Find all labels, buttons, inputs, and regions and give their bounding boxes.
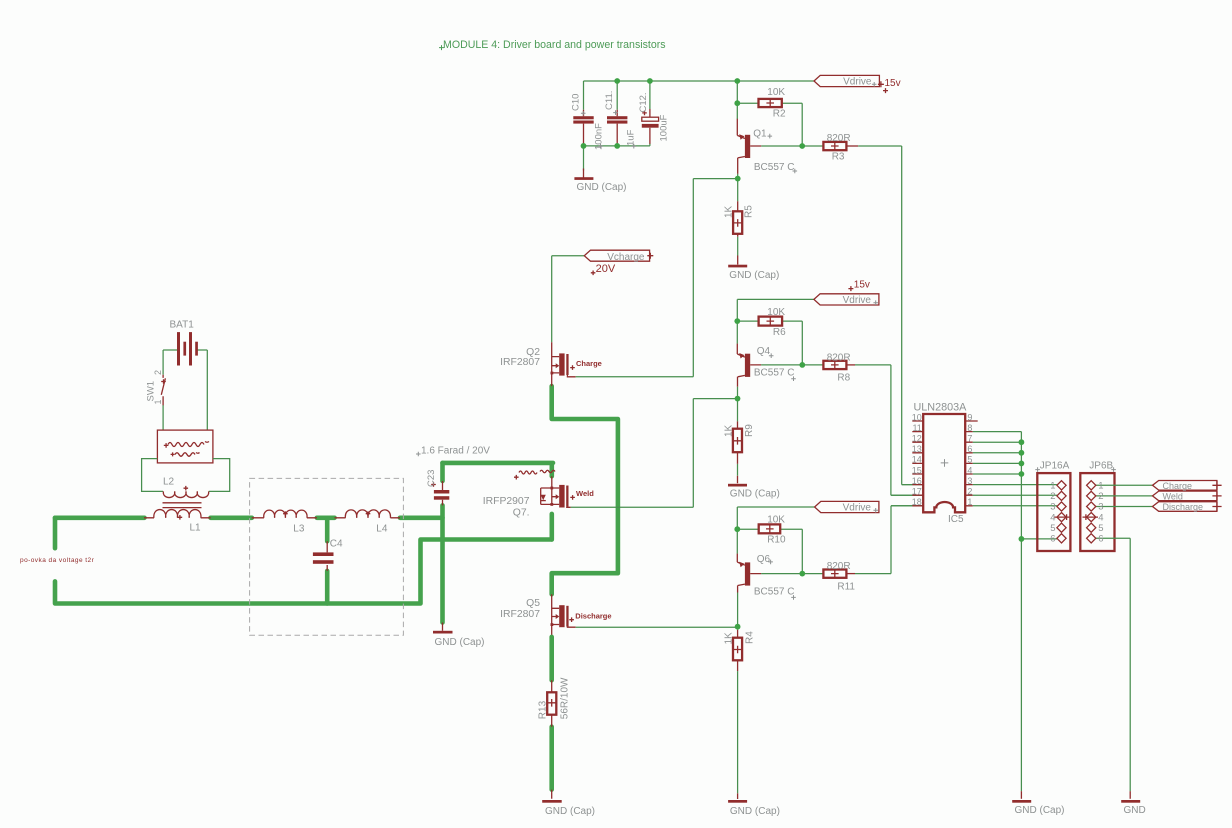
svg-text:GND (Cap): GND (Cap) xyxy=(730,806,780,817)
svg-text:C23: C23 xyxy=(426,470,437,487)
svg-text:GND (Cap): GND (Cap) xyxy=(729,270,779,281)
svg-text:1K: 1K xyxy=(724,632,735,645)
svg-text:Q6: Q6 xyxy=(757,554,771,565)
svg-text:R11: R11 xyxy=(837,581,855,592)
svg-text:10K: 10K xyxy=(767,514,785,525)
svg-text:L2: L2 xyxy=(163,477,175,488)
svg-text:56R/10W: 56R/10W xyxy=(560,677,571,719)
svg-text:po-ovka da voltage t2r: po-ovka da voltage t2r xyxy=(20,557,95,564)
svg-text:C10: C10 xyxy=(571,94,582,111)
svg-text:11: 11 xyxy=(912,423,921,433)
svg-text:9: 9 xyxy=(967,412,972,422)
svg-text:3: 3 xyxy=(967,476,972,486)
svg-text:GND (Cap): GND (Cap) xyxy=(577,182,627,193)
svg-text:4: 4 xyxy=(1098,512,1103,523)
svg-text:JP16A: JP16A xyxy=(1040,460,1070,471)
svg-text:Q1: Q1 xyxy=(753,129,767,140)
svg-text:GND (Cap): GND (Cap) xyxy=(435,637,485,648)
svg-text:12: 12 xyxy=(912,434,922,444)
svg-text:C11.: C11. xyxy=(604,91,615,110)
svg-text:13: 13 xyxy=(912,444,922,454)
svg-text:6: 6 xyxy=(1098,534,1103,545)
svg-text:Vdrive: Vdrive xyxy=(843,77,872,88)
svg-text:GND (Cap): GND (Cap) xyxy=(730,488,780,499)
svg-text:15: 15 xyxy=(912,465,922,475)
svg-text:5: 5 xyxy=(1050,523,1055,534)
svg-text:100nF: 100nF xyxy=(594,123,605,150)
svg-text:Charge: Charge xyxy=(576,359,602,368)
svg-text:2: 2 xyxy=(153,370,163,375)
svg-text:15v: 15v xyxy=(885,78,901,89)
svg-text:R9: R9 xyxy=(744,424,755,437)
svg-text:R4: R4 xyxy=(745,631,756,644)
svg-text:10K: 10K xyxy=(767,307,785,318)
svg-text:100uF: 100uF xyxy=(659,114,670,141)
svg-text:IRF2807: IRF2807 xyxy=(500,357,540,368)
svg-text:10K: 10K xyxy=(767,87,785,98)
svg-text:8: 8 xyxy=(967,423,972,433)
svg-text:Q4: Q4 xyxy=(757,346,771,357)
svg-text:3: 3 xyxy=(1098,502,1103,513)
svg-text:C4: C4 xyxy=(330,539,343,550)
svg-text:Weld: Weld xyxy=(1163,491,1183,501)
svg-text:Q5: Q5 xyxy=(526,598,540,609)
svg-text:GND (Cap): GND (Cap) xyxy=(1015,805,1065,816)
svg-text:Vcharge: Vcharge xyxy=(607,252,645,263)
svg-text:MODULE 4: Driver board and pow: MODULE 4: Driver board and power transis… xyxy=(443,39,666,51)
svg-text:Vdrive: Vdrive xyxy=(843,295,872,306)
svg-text:IC5: IC5 xyxy=(948,514,964,525)
svg-text:1: 1 xyxy=(1050,481,1055,492)
svg-text:C12.: C12. xyxy=(638,92,649,112)
svg-text:1K: 1K xyxy=(724,205,735,218)
svg-text:BC557 C: BC557 C xyxy=(754,586,795,597)
svg-text:IRFP2907: IRFP2907 xyxy=(483,496,530,507)
svg-text:GND (Cap): GND (Cap) xyxy=(545,806,595,817)
svg-text:820R: 820R xyxy=(827,352,851,363)
svg-text:1K: 1K xyxy=(724,424,735,437)
svg-text:Q7.: Q7. xyxy=(513,507,530,518)
svg-text:1.6 Farad / 20V: 1.6 Farad / 20V xyxy=(421,446,490,457)
svg-text:L1: L1 xyxy=(190,523,202,534)
svg-text:820R: 820R xyxy=(827,133,851,144)
svg-text:R10: R10 xyxy=(767,535,786,546)
svg-text:R2: R2 xyxy=(773,108,786,119)
svg-text:6: 6 xyxy=(1050,534,1055,545)
svg-text:R5: R5 xyxy=(744,205,755,218)
svg-text:2: 2 xyxy=(1050,491,1055,502)
svg-text:Discharge: Discharge xyxy=(575,611,611,620)
svg-text:5: 5 xyxy=(1098,523,1103,534)
svg-text:R8: R8 xyxy=(837,373,850,384)
svg-text:L4: L4 xyxy=(376,524,388,535)
svg-text:2: 2 xyxy=(1098,491,1103,502)
svg-text:BAT1: BAT1 xyxy=(170,320,195,331)
svg-text:17: 17 xyxy=(912,487,922,497)
svg-text:Vdrive: Vdrive xyxy=(843,503,872,514)
svg-text:1: 1 xyxy=(1098,481,1103,492)
svg-text:SW1: SW1 xyxy=(146,381,157,402)
svg-text:4: 4 xyxy=(1050,512,1055,523)
svg-text:2: 2 xyxy=(967,487,972,497)
svg-text:3: 3 xyxy=(1050,502,1055,513)
svg-text:10: 10 xyxy=(912,412,922,422)
svg-text:18: 18 xyxy=(912,497,922,507)
svg-text:GND: GND xyxy=(1124,805,1146,816)
svg-text:16: 16 xyxy=(912,476,922,486)
svg-text:20V: 20V xyxy=(596,263,616,275)
svg-text:BC557 C: BC557 C xyxy=(754,162,795,173)
svg-text:4: 4 xyxy=(967,465,972,475)
svg-text:R13: R13 xyxy=(538,700,549,719)
svg-text:7: 7 xyxy=(967,434,972,444)
svg-text:6: 6 xyxy=(967,444,972,454)
svg-text:L3: L3 xyxy=(293,524,305,535)
svg-text:14: 14 xyxy=(912,455,922,465)
svg-text:BC557 C: BC557 C xyxy=(754,368,795,379)
svg-text:R6: R6 xyxy=(773,327,786,338)
svg-text:JP6B: JP6B xyxy=(1089,460,1113,471)
svg-text:Charge: Charge xyxy=(1163,481,1193,491)
svg-text:1uF: 1uF xyxy=(626,129,637,146)
svg-text:15v: 15v xyxy=(854,280,870,291)
svg-text:R3: R3 xyxy=(832,152,845,163)
svg-text:1: 1 xyxy=(967,497,972,507)
svg-text:Weld: Weld xyxy=(576,489,594,498)
svg-text:IRF2807: IRF2807 xyxy=(500,609,540,620)
svg-text:5: 5 xyxy=(967,455,972,465)
svg-text:820R: 820R xyxy=(827,561,851,572)
svg-text:Discharge: Discharge xyxy=(1163,502,1204,512)
